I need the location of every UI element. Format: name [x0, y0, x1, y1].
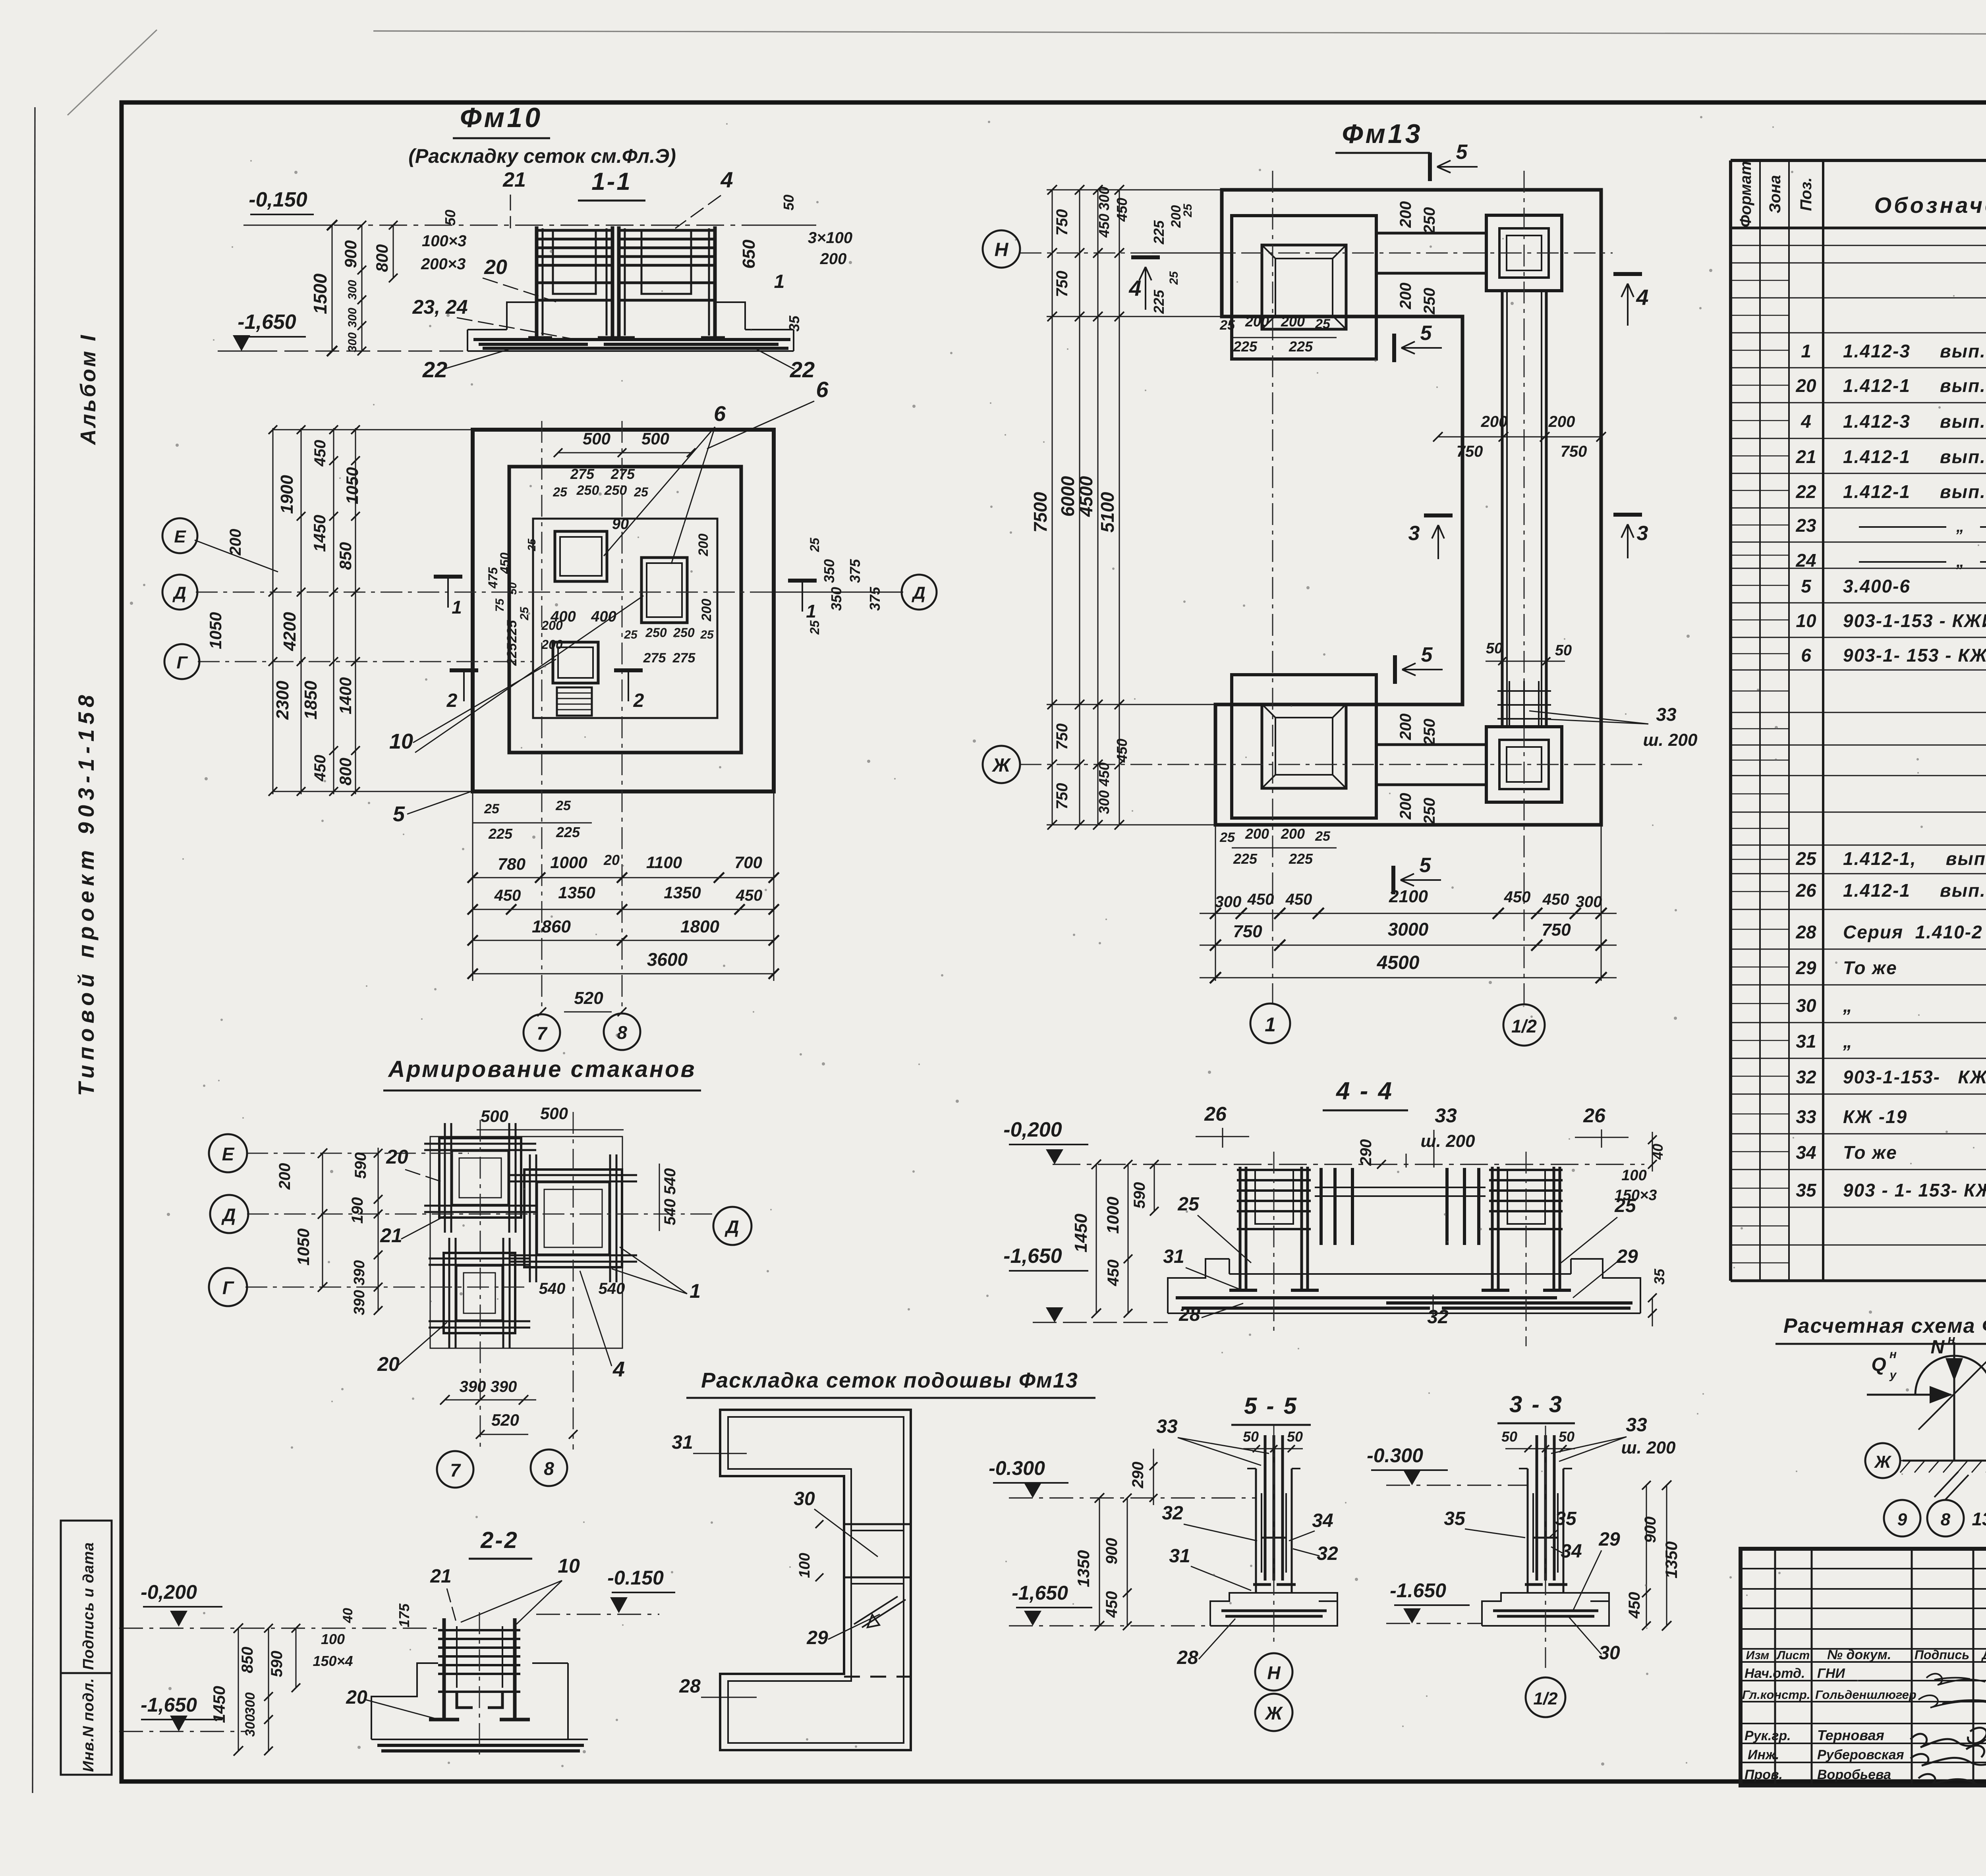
svg-text:225: 225 — [488, 826, 513, 842]
svg-text:-0,200: -0,200 — [141, 1581, 197, 1603]
svg-text:200: 200 — [1281, 313, 1305, 330]
svg-text:33: 33 — [1435, 1104, 1457, 1127]
Fm13 bottom beam — [1376, 745, 1486, 785]
Fm13 rebar cross at lower right beam — [1497, 681, 1551, 727]
svg-text:225: 225 — [1289, 851, 1313, 867]
svg-text:850: 850 — [336, 542, 355, 570]
1-1 elevation — [243, 225, 816, 351]
section 4-4 title — [1323, 1077, 1408, 1110]
svg-text:Д: Д — [221, 1204, 236, 1225]
svg-text:9: 9 — [1897, 1510, 1907, 1529]
svg-text:450: 450 — [736, 887, 763, 904]
svg-text:450: 450 — [311, 440, 329, 467]
svg-text:750: 750 — [1053, 271, 1071, 297]
svg-text:275: 275 — [610, 466, 635, 482]
svg-text:50: 50 — [506, 582, 519, 595]
svg-text:Пров.: Пров. — [1745, 1767, 1783, 1782]
svg-text:450: 450 — [1105, 1260, 1122, 1287]
1-1 level -1,650 — [218, 311, 468, 351]
svg-text:ш. 200: ш. 200 — [1421, 1131, 1476, 1151]
svg-text:4: 4 — [612, 1357, 625, 1381]
svg-text:3 - 3: 3 - 3 — [1509, 1392, 1563, 1417]
4-4 slab outline — [1168, 1259, 1640, 1313]
sheet top fold mark — [68, 30, 157, 115]
svg-text:Q: Q — [1871, 1354, 1886, 1375]
svg-text:275: 275 — [570, 466, 595, 482]
svg-text:1-1: 1-1 — [591, 168, 632, 195]
1-1 left rebar cage (pos 20) — [528, 226, 622, 338]
section 2-2 title — [469, 1527, 532, 1559]
table header — [1737, 161, 1986, 228]
svg-text:1500: 1500 — [310, 273, 330, 314]
svg-text:7: 7 — [450, 1460, 461, 1480]
svg-text:375: 375 — [847, 559, 863, 583]
svg-text:390: 390 — [351, 1290, 368, 1315]
svg-text:25: 25 — [624, 628, 638, 641]
section 1-1 heading — [578, 168, 645, 201]
svg-text:31: 31 — [1169, 1546, 1190, 1567]
svg-text:Фм13: Фм13 — [1342, 119, 1422, 149]
section 5-5 title — [1231, 1393, 1311, 1425]
svg-text:7500: 7500 — [1030, 492, 1051, 533]
svg-text:Г: Г — [176, 653, 188, 672]
svg-text:275: 275 — [643, 650, 667, 666]
svg-text:ГНИ: ГНИ — [1817, 1666, 1845, 1681]
svg-text:20: 20 — [603, 852, 620, 868]
axis bubble 7 under Fm10 — [524, 1014, 560, 1051]
axis bubble 8 under Fm10 — [604, 1013, 640, 1050]
svg-text:75: 75 — [493, 598, 506, 612]
title block left column texts — [1742, 1647, 1986, 1782]
5-5 levels and dims — [989, 1449, 1255, 1631]
svg-text:190: 190 — [349, 1197, 366, 1224]
svg-text:25: 25 — [634, 485, 649, 499]
svg-text:290: 290 — [1357, 1139, 1375, 1166]
svg-text:300: 300 — [1576, 893, 1602, 911]
svg-text:25: 25 — [1795, 848, 1817, 869]
Fm10 plan labels — [389, 402, 726, 826]
Fm13 small dims below bottom-left footing — [1219, 826, 1337, 867]
svg-text:25: 25 — [1315, 317, 1331, 332]
svg-text:34: 34 — [1796, 1142, 1816, 1163]
svg-text:300: 300 — [1096, 187, 1112, 210]
svg-text:„: „ — [1843, 1031, 1853, 1052]
svg-text:30: 30 — [1599, 1642, 1620, 1664]
svg-text:Рук.гр.: Рук.гр. — [1745, 1728, 1791, 1743]
svg-text:н: н — [1889, 1348, 1897, 1361]
svg-text:520: 520 — [574, 988, 603, 1008]
svg-text:1350: 1350 — [1662, 1541, 1681, 1578]
Fm10 embedded plate hatch — [557, 687, 592, 716]
svg-text:4500: 4500 — [1377, 952, 1420, 973]
svg-text:32: 32 — [1796, 1067, 1816, 1087]
svg-text:„: „ — [1843, 995, 1853, 1016]
svg-text:540: 540 — [661, 1199, 679, 1226]
svg-text:450: 450 — [1096, 214, 1112, 238]
svg-text:6: 6 — [816, 377, 829, 402]
1-1 dimension lines — [243, 210, 466, 356]
Fm13 right beam 50 50 dims — [1486, 640, 1572, 665]
svg-text:н: н — [1947, 1332, 1955, 1347]
arm stakan right (pos 1) — [509, 1154, 637, 1282]
svg-text:Д: Д — [911, 583, 925, 603]
svg-text:Серия 1.410-2 в.1: Серия 1.410-2 в.1 — [1843, 922, 1986, 942]
svg-text:225: 225 — [1151, 220, 1167, 245]
svg-text:Подпись: Подпись — [1915, 1648, 1969, 1662]
svg-text:1.412-1 вып. II: 1.412-1 вып. II — [1843, 880, 1986, 901]
svg-text:450: 450 — [1626, 1592, 1643, 1619]
4-4 right cage — [1482, 1167, 1571, 1290]
svg-text:Раскладка сеток подошвы Фм13: Раскладка сеток подошвы Фм13 — [701, 1368, 1078, 1392]
svg-text:28: 28 — [1178, 1304, 1200, 1325]
svg-text:200: 200 — [227, 529, 244, 556]
svg-text:21: 21 — [1795, 446, 1816, 467]
svg-text:750: 750 — [1233, 922, 1262, 941]
Fm10 plan right dims — [774, 537, 902, 635]
svg-text:23: 23 — [1795, 515, 1816, 536]
5-5 drawing — [1210, 1426, 1337, 1644]
svg-text:29: 29 — [1795, 957, 1816, 978]
svg-text:25: 25 — [1167, 271, 1180, 285]
svg-text:34: 34 — [1312, 1510, 1333, 1531]
svg-text:300: 300 — [346, 308, 359, 328]
svg-text:4200: 4200 — [280, 612, 299, 651]
svg-text:То же: То же — [1843, 1142, 1897, 1163]
svg-text:1450: 1450 — [1071, 1214, 1091, 1253]
arm axis bubble 8 — [531, 1449, 567, 1486]
svg-text:24: 24 — [1795, 550, 1816, 571]
svg-text:1850: 1850 — [301, 681, 321, 720]
svg-text:4 - 4: 4 - 4 — [1335, 1077, 1393, 1105]
svg-text:700: 700 — [734, 853, 762, 872]
svg-text:780: 780 — [498, 855, 525, 873]
svg-text:6: 6 — [714, 402, 726, 426]
svg-text:Е: Е — [174, 527, 186, 546]
svg-text:175: 175 — [396, 1603, 412, 1627]
svg-text:5: 5 — [393, 802, 405, 826]
svg-text:450: 450 — [311, 755, 329, 782]
Fm10 stakan top — [555, 531, 607, 581]
svg-text:5: 5 — [1456, 141, 1468, 164]
svg-text:13: 13 — [1972, 1509, 1986, 1529]
svg-text:1050: 1050 — [294, 1228, 313, 1265]
svg-text:20: 20 — [1795, 375, 1816, 396]
signatures — [1911, 1674, 1986, 1786]
svg-text:-0.300: -0.300 — [989, 1457, 1045, 1479]
svg-text:2: 2 — [446, 690, 458, 711]
svg-text:200: 200 — [541, 618, 563, 633]
svg-text:29: 29 — [1598, 1529, 1620, 1550]
svg-text:31: 31 — [1163, 1246, 1184, 1267]
svg-text:(Раскладку сеток см.Фл.Э): (Раскладку сеток см.Фл.Э) — [408, 145, 676, 167]
svg-text:25: 25 — [1181, 203, 1194, 218]
axis bubble 1/2 — [1503, 1004, 1545, 1046]
svg-text:1000: 1000 — [550, 853, 587, 872]
svg-text:275: 275 — [672, 650, 696, 666]
axis bubble D left — [162, 575, 197, 610]
svg-text:20: 20 — [346, 1687, 367, 1708]
svg-text:150×4: 150×4 — [313, 1653, 353, 1669]
svg-text:250: 250 — [1421, 798, 1438, 825]
svg-text:Д: Д — [172, 583, 186, 603]
svg-text:150×3: 150×3 — [1615, 1187, 1657, 1204]
svg-text:200: 200 — [1481, 413, 1508, 430]
Fm13 top beam dims — [1397, 201, 1438, 315]
svg-text:750: 750 — [1053, 783, 1071, 810]
svg-text:Альбом I: Альбом I — [76, 333, 100, 446]
arm axis bubble G — [209, 1268, 247, 1306]
svg-text:50: 50 — [1501, 1428, 1517, 1445]
svg-text:Формат: Формат — [1737, 161, 1754, 228]
svg-text:4: 4 — [1801, 411, 1811, 432]
svg-text:Ж: Ж — [991, 755, 1011, 776]
svg-text:390: 390 — [491, 1378, 517, 1395]
svg-text:225: 225 — [504, 620, 520, 643]
Fm13 right beam mid dims — [1433, 413, 1606, 460]
svg-text:2-2: 2-2 — [480, 1527, 519, 1553]
svg-text:Армирование стаканов: Армирование стаканов — [387, 1056, 696, 1082]
svg-text:750: 750 — [1542, 920, 1571, 940]
Armirovanie stakanov title — [383, 1056, 701, 1090]
svg-text:900: 900 — [1642, 1517, 1659, 1543]
svg-text:Гольденшлюгер: Гольденшлюгер — [1815, 1688, 1916, 1702]
svg-text:50: 50 — [1243, 1428, 1259, 1445]
svg-text:25: 25 — [808, 537, 822, 552]
svg-text:у: у — [1889, 1368, 1897, 1382]
svg-text:250: 250 — [673, 625, 695, 640]
svg-text:Руберовская: Руберовская — [1817, 1747, 1904, 1762]
svg-text:903-1- 153 - КЖИ - МН2: 903-1- 153 - КЖИ - МН2 — [1843, 645, 1986, 666]
arm labels — [377, 1146, 701, 1381]
arm axis bubble D — [210, 1195, 248, 1233]
svg-text:22: 22 — [1795, 481, 1816, 502]
Fm10 stakan bottom — [553, 642, 598, 683]
svg-text:1: 1 — [1801, 341, 1811, 361]
svg-text:Гл.констр.: Гл.констр. — [1742, 1688, 1810, 1702]
Fm13 section marks 5 — [1393, 141, 1478, 894]
svg-text:-1,650: -1,650 — [238, 311, 296, 334]
svg-text:250: 250 — [645, 625, 667, 640]
svg-text:750: 750 — [1053, 724, 1071, 750]
svg-text:903 - 1- 153- КЖИ-С19,С23: 903 - 1- 153- КЖИ-С19,С23 — [1843, 1180, 1986, 1200]
svg-text:8: 8 — [617, 1022, 627, 1043]
svg-text:5: 5 — [1801, 576, 1812, 596]
Fm10 plan top dims — [553, 429, 695, 533]
svg-text:N: N — [1931, 1337, 1945, 1358]
Fm13 section marks 3 — [1408, 515, 1648, 559]
svg-text:25: 25 — [555, 798, 571, 813]
svg-text:590: 590 — [352, 1152, 369, 1179]
Fm13 axis lines — [1020, 171, 1646, 1004]
svg-text:21: 21 — [430, 1566, 451, 1587]
svg-text:30: 30 — [794, 1488, 815, 1509]
4-4 left cage — [1229, 1167, 1319, 1290]
4-4 single bars pos33 — [1315, 1168, 1486, 1245]
svg-text:Зона: Зона — [1766, 175, 1784, 214]
Fm10 plan axes — [195, 421, 903, 1009]
svg-text:3600: 3600 — [647, 949, 688, 970]
svg-text:5 - 5: 5 - 5 — [1244, 1393, 1298, 1419]
svg-text:450: 450 — [1285, 891, 1312, 908]
4-4 left dims — [1003, 1160, 1168, 1322]
raskladka shape — [720, 1410, 911, 1750]
svg-text:№ докум.: № докум. — [1827, 1647, 1891, 1662]
svg-text:-0.150: -0.150 — [607, 1567, 664, 1589]
svg-text:5: 5 — [1420, 322, 1432, 345]
svg-text:1050: 1050 — [343, 467, 361, 504]
Fm10 plan left dims — [206, 425, 473, 796]
svg-text:25: 25 — [700, 628, 714, 641]
svg-text:100: 100 — [1621, 1167, 1646, 1184]
svg-text:Подпись и дата: Подпись и дата — [80, 1542, 97, 1670]
4-4 labels — [1163, 1103, 1667, 1328]
svg-text:3.400-6: 3.400-6 — [1843, 576, 1911, 596]
svg-text:2: 2 — [633, 690, 644, 711]
raskladka labels — [672, 1432, 906, 1697]
svg-text:25: 25 — [484, 801, 500, 816]
svg-text:5100: 5100 — [1097, 492, 1118, 533]
svg-text:1: 1 — [690, 1280, 701, 1302]
svg-text:10: 10 — [1796, 610, 1816, 631]
svg-text:450: 450 — [1542, 891, 1569, 908]
svg-text:5: 5 — [1420, 854, 1432, 877]
svg-text:1.412-1 вып. II: 1.412-1 вып. II — [1843, 375, 1986, 396]
svg-text:1.412-1 вып. II: 1.412-1 вып. II — [1843, 446, 1986, 467]
svg-text:21: 21 — [502, 168, 526, 191]
3-3 labels — [1444, 1415, 1676, 1664]
svg-text:520: 520 — [491, 1411, 519, 1429]
svg-text:650: 650 — [739, 239, 759, 269]
svg-text:750: 750 — [1053, 209, 1071, 236]
svg-text:300: 300 — [243, 1693, 258, 1715]
svg-text:4: 4 — [720, 167, 733, 192]
svg-text:21: 21 — [380, 1224, 402, 1247]
svg-text:8: 8 — [544, 1458, 554, 1479]
svg-text:250: 250 — [1421, 288, 1438, 315]
spec table — [1731, 160, 1986, 1281]
svg-text:2300: 2300 — [273, 681, 292, 720]
svg-text:32: 32 — [1427, 1307, 1449, 1328]
Fm10 heading — [408, 102, 676, 167]
svg-text:200: 200 — [541, 637, 563, 652]
svg-text:1.412-3 вып. II: 1.412-3 вып. II — [1843, 411, 1986, 432]
svg-text:500: 500 — [481, 1107, 508, 1125]
svg-text:200: 200 — [699, 599, 714, 622]
svg-text:26: 26 — [1204, 1103, 1227, 1125]
svg-text:450: 450 — [494, 887, 521, 904]
svg-text:350: 350 — [828, 587, 844, 611]
svg-text:250: 250 — [576, 483, 599, 498]
svg-text:250: 250 — [604, 483, 627, 498]
svg-text:100×3: 100×3 — [422, 232, 466, 250]
Fm10 stakan right — [641, 558, 687, 623]
svg-text:50: 50 — [1555, 642, 1572, 659]
left margin vertical text: Типовой проект 903-1-158 — [73, 690, 99, 1096]
svg-text:То же: То же — [1843, 957, 1897, 978]
svg-text:Расчетная схема Фм4,Фм4а,Фм4б: Расчетная схема Фм4,Фм4а,Фм4б — [1783, 1314, 1986, 1338]
4-4 top level line — [1003, 1118, 1644, 1164]
svg-text:Дата: Дата — [1981, 1648, 1986, 1662]
svg-text:450: 450 — [1504, 888, 1531, 906]
svg-text:225: 225 — [1233, 851, 1258, 867]
Fm13 plan title — [1335, 119, 1430, 153]
svg-text:Поз.: Поз. — [1797, 178, 1815, 211]
svg-text:1900: 1900 — [277, 475, 297, 514]
5-5 labels — [1156, 1416, 1338, 1668]
svg-text:3: 3 — [1637, 522, 1648, 545]
Fm13 top beam — [1376, 233, 1486, 273]
svg-text:-1,650: -1,650 — [1012, 1582, 1068, 1604]
svg-text:„: „ — [1956, 553, 1964, 570]
svg-text:200: 200 — [1245, 826, 1269, 842]
svg-text:3: 3 — [1408, 522, 1420, 545]
Fm13 left dimension lines — [1030, 185, 1222, 830]
svg-text:26: 26 — [1583, 1104, 1606, 1127]
svg-text:-1,650: -1,650 — [1003, 1245, 1062, 1268]
svg-text:590: 590 — [1131, 1182, 1148, 1209]
svg-text:6000: 6000 — [1057, 476, 1078, 517]
svg-text:Воробьева: Воробьева — [1817, 1767, 1891, 1782]
Fm10 plan bottom dims — [468, 791, 779, 1016]
Fm10 plan inner dims — [486, 534, 714, 666]
svg-text:Н: Н — [995, 239, 1009, 261]
raskladka title — [686, 1368, 1095, 1398]
svg-text:750: 750 — [1561, 443, 1587, 460]
Fm10 plan outer slab — [473, 430, 774, 791]
arm outline box — [430, 1137, 622, 1348]
svg-text:33: 33 — [1626, 1415, 1647, 1436]
svg-text:1: 1 — [452, 597, 462, 618]
svg-text:100: 100 — [321, 1631, 345, 1647]
paper top edge — [373, 31, 1986, 35]
svg-text:25: 25 — [1315, 829, 1331, 844]
svg-text:200×3: 200×3 — [421, 255, 466, 273]
svg-text:40: 40 — [340, 1608, 355, 1623]
svg-text:7: 7 — [537, 1023, 548, 1044]
svg-text:„: „ — [1956, 518, 1964, 535]
axis bubble Zh — [983, 746, 1020, 783]
svg-text:50: 50 — [780, 195, 797, 210]
svg-text:390: 390 — [460, 1378, 486, 1395]
svg-text:200: 200 — [1245, 313, 1269, 330]
svg-text:1400: 1400 — [336, 677, 355, 714]
svg-text:20: 20 — [386, 1146, 408, 1168]
svg-text:850: 850 — [239, 1647, 256, 1673]
svg-text:ш. 200: ш. 200 — [1621, 1438, 1676, 1457]
svg-text:1450: 1450 — [210, 1686, 228, 1723]
svg-text:200: 200 — [1281, 826, 1305, 842]
svg-text:225: 225 — [1289, 338, 1313, 355]
svg-text:300: 300 — [346, 280, 359, 300]
svg-text:-0.300: -0.300 — [1367, 1444, 1423, 1467]
svg-text:33: 33 — [1156, 1416, 1178, 1437]
5-5 axis bubble Zh — [1255, 1694, 1292, 1731]
svg-text:33: 33 — [1656, 704, 1677, 725]
svg-text:50: 50 — [1287, 1428, 1303, 1445]
svg-text:450: 450 — [1103, 1591, 1121, 1618]
svg-text:1100: 1100 — [646, 853, 682, 872]
svg-text:30: 30 — [1796, 995, 1816, 1016]
Fm13 footing top-right — [1486, 215, 1562, 291]
svg-text:1800: 1800 — [680, 917, 719, 936]
svg-text:КЖ -19: КЖ -19 — [1843, 1106, 1907, 1127]
svg-text:3000: 3000 — [1388, 919, 1429, 940]
2-2 dims — [210, 1555, 580, 1756]
svg-text:Терновая: Терновая — [1817, 1727, 1884, 1743]
svg-text:25: 25 — [553, 485, 568, 499]
svg-text:300: 300 — [243, 1714, 258, 1737]
svg-text:Фм10: Фм10 — [460, 102, 543, 133]
